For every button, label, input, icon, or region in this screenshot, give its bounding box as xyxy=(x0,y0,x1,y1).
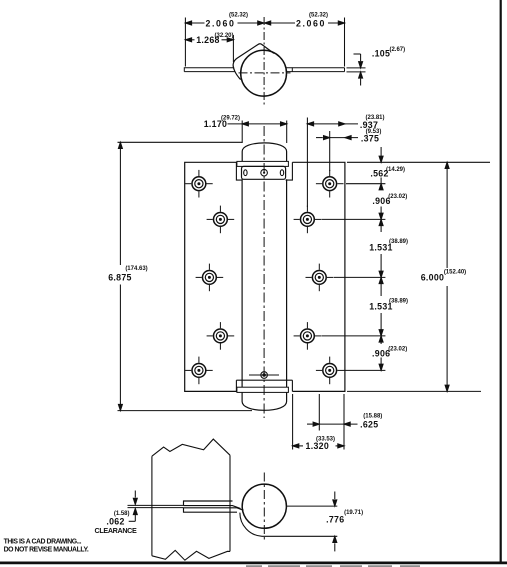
bottom spacer sides xyxy=(241,380,243,387)
top flange xyxy=(237,161,289,166)
barrel circle (top view) xyxy=(241,50,287,96)
left plate knuckle step top xyxy=(236,162,241,180)
svg-text:(29.72): (29.72) xyxy=(221,116,240,122)
barrel cap top (dome) xyxy=(242,143,286,162)
leaf wrap arc (bottom view) xyxy=(240,513,262,537)
dimension 2.060 left xyxy=(185,21,264,25)
svg-text:6.000: 6.000 xyxy=(421,273,445,283)
holes right plate xyxy=(316,170,344,198)
knuckle tick on right leaf xyxy=(291,67,293,72)
svg-text:(152.40): (152.40) xyxy=(444,270,466,276)
svg-text:(1.58): (1.58) xyxy=(114,511,130,517)
extension line left leaf tip xyxy=(184,18,186,67)
dimension .375 xyxy=(316,131,358,171)
svg-text:(19.71): (19.71) xyxy=(344,510,363,516)
svg-text:.625: .625 xyxy=(360,419,378,429)
right plate bottom extension line xyxy=(347,390,481,392)
right plate outline xyxy=(292,162,345,391)
left leaf (top view) xyxy=(184,68,235,72)
svg-text:THIS IS A CAD DRAWING...: THIS IS A CAD DRAWING... xyxy=(4,539,82,546)
door bottom break line xyxy=(152,550,230,560)
door left edge xyxy=(151,456,153,556)
svg-text:DO NOT REVISE MANUALLY.: DO NOT REVISE MANUALLY. xyxy=(4,547,89,554)
svg-text:(2.67): (2.67) xyxy=(389,47,405,53)
svg-text:(52.32): (52.32) xyxy=(229,13,248,19)
svg-text:(38.89): (38.89) xyxy=(389,239,408,245)
door top break line xyxy=(152,439,230,456)
barrel bottom cap (dome) xyxy=(242,392,287,410)
barrel bottom line xyxy=(236,379,292,381)
dimension .625 xyxy=(307,394,358,431)
dimension .105 leaf thickness xyxy=(347,54,366,86)
svg-text:(14.29): (14.29) xyxy=(386,167,405,173)
dimension .776 xyxy=(262,492,337,552)
svg-text:(38.89): (38.89) xyxy=(389,299,408,305)
svg-text:(15.88): (15.88) xyxy=(363,414,382,420)
holes left plate xyxy=(185,170,213,198)
svg-text:2.060: 2.060 xyxy=(205,18,235,28)
door right edge xyxy=(229,455,231,551)
dimension 1.170 (barrel dia) xyxy=(228,121,287,144)
dimension .062 clearance xyxy=(129,491,138,522)
right plate knuckle step bottom xyxy=(291,380,293,391)
vertical centerline (top view) xyxy=(263,17,265,107)
collar hole left (oval) xyxy=(244,170,247,176)
sheet border bottom xyxy=(0,562,507,565)
left plate outline xyxy=(185,162,237,391)
svg-text:(32.20): (32.20) xyxy=(214,33,233,39)
bottom flange xyxy=(237,387,289,392)
barrel circle (bottom view) xyxy=(242,484,286,528)
extension line right leaf tip xyxy=(344,18,346,67)
collar hole center xyxy=(261,169,268,176)
left plate knuckle step bottom xyxy=(235,380,237,391)
svg-text:(33.53): (33.53) xyxy=(316,436,335,442)
chain dimension .562/.906/1.531/1.531/.906 xyxy=(379,147,383,370)
dimension 2.060 right xyxy=(265,21,345,25)
svg-text:.062: .062 xyxy=(106,517,124,527)
svg-text:(23.81): (23.81) xyxy=(365,115,384,121)
svg-text:(9.53): (9.53) xyxy=(366,129,382,135)
svg-text:CLEARANCE: CLEARANCE xyxy=(95,526,138,535)
svg-text:.375: .375 xyxy=(361,134,379,144)
collar hole right (oval) xyxy=(280,170,283,176)
dimension 6.000 xyxy=(445,162,449,391)
dimension 6.875 (overall height) xyxy=(118,142,253,410)
svg-text:.776: .776 xyxy=(326,515,344,525)
ghost of cut-off title block text xyxy=(246,565,420,566)
right leaf (top view) xyxy=(286,68,345,72)
vertical centerline (bottom view) xyxy=(263,473,265,541)
upper leaf (bottom view) xyxy=(184,501,241,509)
svg-text:6.875: 6.875 xyxy=(108,272,132,282)
cap knuckle arc (top view) xyxy=(233,44,274,80)
dimension 1.320 xyxy=(293,394,344,450)
clearance extension lines (leaf faces) xyxy=(128,504,184,506)
svg-text:(52.32): (52.32) xyxy=(309,13,328,19)
svg-text:.105: .105 xyxy=(372,49,390,59)
lower leaf (bottom view) xyxy=(184,508,244,512)
right plate knuckle step top xyxy=(286,162,293,180)
svg-text:2.060: 2.060 xyxy=(296,18,326,28)
adjusting collar xyxy=(242,166,286,179)
svg-text:(174.63): (174.63) xyxy=(125,266,147,272)
right plate top extension line xyxy=(347,161,490,163)
pin hole at barrel bottom xyxy=(261,372,268,379)
horizontal centerline (top view) xyxy=(239,72,291,74)
barrel body sides xyxy=(241,179,243,380)
svg-text:(23.02): (23.02) xyxy=(388,347,407,353)
dimension 1.268 xyxy=(185,38,233,42)
svg-text:(23.02): (23.02) xyxy=(388,194,407,200)
extension line cap left tangent xyxy=(232,35,234,62)
centerline (front view) xyxy=(263,126,265,418)
dimension .937 xyxy=(307,118,358,208)
sheet border right xyxy=(500,0,502,563)
hole row extension lines xyxy=(346,183,385,185)
